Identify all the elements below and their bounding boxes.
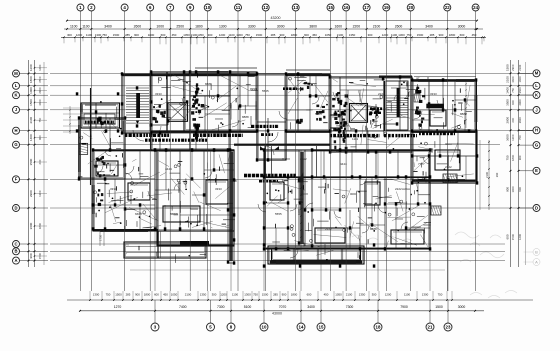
svg-text:1270: 1270	[114, 305, 122, 309]
svg-text:1800: 1800	[148, 33, 155, 37]
svg-text:1800: 1800	[449, 33, 456, 37]
svg-text:3500: 3500	[506, 99, 510, 106]
svg-text:1000: 1000	[156, 25, 164, 29]
svg-text:1100: 1100	[404, 292, 411, 296]
svg-text:1100: 1100	[232, 292, 239, 296]
svg-text:3333: 3333	[215, 187, 222, 191]
svg-text:8888: 8888	[230, 179, 237, 183]
svg-text:600: 600	[38, 159, 42, 164]
svg-text:1200: 1200	[38, 190, 42, 197]
svg-text:8888: 8888	[205, 82, 212, 86]
svg-text:11: 11	[236, 5, 241, 10]
svg-text:1350: 1350	[349, 33, 356, 37]
svg-text:600: 600	[511, 117, 515, 122]
svg-text:2222: 2222	[395, 187, 402, 191]
svg-text:1500: 1500	[417, 33, 424, 37]
svg-text:750: 750	[253, 292, 258, 296]
svg-text:750: 750	[106, 292, 111, 296]
svg-text:285: 285	[271, 33, 276, 37]
svg-text:R: R	[427, 76, 429, 80]
svg-text:3000: 3000	[277, 25, 285, 29]
svg-text:2900: 2900	[38, 87, 42, 94]
svg-text:390: 390	[495, 172, 499, 177]
svg-text:3333: 3333	[110, 187, 117, 191]
svg-text:600: 600	[518, 187, 522, 192]
svg-text:BT: BT	[416, 77, 420, 81]
svg-text:1400: 1400	[518, 76, 522, 82]
svg-text:1500: 1500	[506, 64, 510, 71]
svg-text:2900: 2900	[518, 99, 522, 105]
svg-text:12: 12	[263, 5, 268, 10]
svg-text:H: H	[535, 128, 538, 133]
svg-text:1500: 1500	[38, 252, 42, 259]
svg-text:1350: 1350	[197, 33, 204, 37]
svg-text:2100: 2100	[29, 117, 33, 124]
svg-text:B: B	[14, 249, 17, 254]
svg-text:3333: 3333	[430, 92, 437, 96]
svg-text:285: 285	[430, 33, 435, 37]
svg-text:1730: 1730	[99, 235, 103, 241]
svg-text:2900: 2900	[506, 117, 510, 124]
svg-text:2100: 2100	[185, 292, 192, 296]
svg-text:2500: 2500	[176, 25, 184, 29]
svg-text:1000: 1000	[29, 87, 33, 94]
svg-text:15: 15	[328, 5, 333, 10]
svg-text:3400: 3400	[307, 305, 315, 309]
svg-text:900: 900	[511, 100, 515, 105]
svg-text:600: 600	[307, 292, 312, 296]
svg-text:1200: 1200	[385, 292, 392, 296]
svg-text:900: 900	[506, 187, 510, 192]
svg-text:23: 23	[446, 325, 451, 330]
svg-text:2600: 2600	[134, 25, 142, 29]
svg-text:1500: 1500	[511, 233, 515, 240]
svg-text:2222: 2222	[445, 165, 452, 169]
svg-text:3500: 3500	[29, 158, 33, 165]
svg-text:B: B	[535, 249, 538, 254]
svg-text:AAAA: AAAA	[318, 185, 326, 189]
svg-text:AAAA: AAAA	[402, 187, 410, 191]
svg-text:1100: 1100	[82, 25, 89, 29]
svg-text:1300: 1300	[422, 292, 429, 296]
svg-text:300: 300	[67, 33, 72, 37]
svg-text:300: 300	[208, 33, 213, 37]
svg-text:1500: 1500	[297, 209, 301, 215]
svg-text:450: 450	[472, 33, 477, 37]
svg-text:5555: 5555	[275, 212, 282, 216]
svg-text:XXXX: XXXX	[395, 217, 403, 221]
svg-text:900: 900	[282, 292, 287, 296]
svg-text:1300: 1300	[244, 292, 251, 296]
svg-text:285: 285	[126, 292, 131, 296]
svg-text:2100: 2100	[518, 64, 522, 70]
svg-text:1300: 1300	[236, 33, 243, 37]
svg-text:3600: 3600	[518, 117, 522, 123]
svg-text:1500: 1500	[115, 292, 122, 296]
svg-text:750: 750	[518, 135, 522, 140]
svg-text:1800: 1800	[195, 25, 203, 29]
svg-text:9999: 9999	[250, 87, 257, 91]
svg-text:XXXX: XXXX	[215, 117, 223, 121]
svg-text:1200: 1200	[511, 134, 515, 141]
svg-text:1800: 1800	[29, 76, 33, 83]
svg-text:1200: 1200	[518, 234, 522, 240]
svg-text:600: 600	[154, 292, 159, 296]
svg-text:2100: 2100	[373, 25, 381, 29]
svg-text:A: A	[535, 259, 538, 264]
svg-text:4444: 4444	[165, 167, 172, 171]
svg-text:3333: 3333	[155, 92, 162, 96]
svg-text:7300: 7300	[346, 305, 354, 309]
svg-text:5555: 5555	[315, 112, 322, 116]
svg-text:1200: 1200	[382, 33, 389, 37]
svg-text:BBBB: BBBB	[170, 212, 178, 216]
svg-text:3600: 3600	[506, 134, 510, 141]
svg-text:3600: 3600	[511, 76, 515, 83]
svg-text:1050: 1050	[335, 292, 342, 296]
svg-text:1200: 1200	[220, 292, 227, 296]
svg-text:600: 600	[161, 33, 166, 37]
svg-text:0000: 0000	[350, 192, 357, 196]
svg-text:21: 21	[428, 325, 433, 330]
svg-text:18: 18	[376, 325, 381, 330]
svg-text:19: 19	[384, 5, 389, 10]
svg-text:1400: 1400	[506, 87, 510, 94]
svg-text:750: 750	[38, 117, 42, 122]
svg-text:3300: 3300	[248, 25, 256, 29]
svg-text:900: 900	[518, 155, 522, 160]
svg-text:3600: 3600	[38, 99, 42, 106]
svg-text:16: 16	[344, 5, 349, 10]
svg-text:2600: 2600	[395, 25, 403, 29]
svg-text:8888: 8888	[295, 87, 302, 91]
svg-text:1100: 1100	[391, 33, 398, 37]
svg-text:14: 14	[299, 325, 304, 330]
svg-text:900: 900	[29, 253, 33, 258]
svg-text:750: 750	[245, 33, 250, 37]
svg-text:750: 750	[407, 33, 412, 37]
svg-text:2100: 2100	[346, 292, 353, 296]
svg-text:XXXX: XXXX	[108, 122, 116, 126]
svg-text:7777: 7777	[418, 162, 425, 166]
svg-text:A: A	[14, 258, 17, 263]
svg-text:H: H	[14, 128, 17, 133]
svg-text:1800: 1800	[38, 222, 42, 229]
svg-text:2900: 2900	[511, 64, 515, 71]
svg-text:1100: 1100	[70, 25, 77, 29]
svg-text:285: 285	[273, 292, 278, 296]
svg-text:K: K	[535, 92, 538, 97]
svg-text:7300: 7300	[217, 305, 225, 309]
svg-text:1200: 1200	[29, 64, 33, 71]
svg-text:2100: 2100	[337, 33, 344, 37]
svg-text:1500: 1500	[29, 99, 33, 106]
svg-text:1300: 1300	[398, 33, 405, 37]
svg-text:G: G	[14, 142, 17, 147]
svg-text:3600: 3600	[29, 222, 33, 229]
svg-text:1500: 1500	[113, 33, 120, 37]
svg-text:300: 300	[372, 292, 377, 296]
svg-text:1050: 1050	[183, 33, 190, 37]
svg-text:750: 750	[102, 33, 107, 37]
svg-text:0000: 0000	[445, 142, 452, 146]
svg-text:6666: 6666	[135, 212, 142, 216]
svg-text:1000: 1000	[511, 186, 515, 193]
svg-text:900: 900	[135, 292, 140, 296]
svg-text:1800: 1800	[291, 292, 298, 296]
svg-text:1200: 1200	[219, 33, 226, 37]
svg-text:1300: 1300	[95, 33, 102, 37]
svg-text:1050: 1050	[171, 292, 178, 296]
svg-text:F: F	[15, 177, 18, 182]
svg-text:7070: 7070	[279, 305, 287, 309]
svg-text:20: 20	[408, 5, 413, 10]
svg-text:900: 900	[38, 135, 42, 140]
svg-text:1400: 1400	[29, 134, 33, 141]
svg-text:1100: 1100	[228, 33, 235, 37]
svg-text:1111: 1111	[352, 137, 358, 141]
svg-text:1200: 1200	[76, 33, 83, 37]
svg-text:43000: 43000	[272, 312, 282, 316]
svg-text:13: 13	[293, 5, 298, 10]
svg-text:1300: 1300	[93, 292, 100, 296]
svg-text:5100: 5100	[244, 305, 252, 309]
svg-text:600: 600	[304, 33, 309, 37]
svg-text:M: M	[14, 71, 18, 76]
svg-text:1300: 1300	[219, 25, 227, 29]
svg-text:43200: 43200	[271, 16, 281, 20]
svg-text:E: E	[535, 168, 538, 173]
svg-text:K: K	[14, 93, 17, 98]
svg-text:AAAA: AAAA	[190, 207, 198, 211]
svg-text:1400: 1400	[38, 64, 42, 71]
svg-text:750: 750	[506, 155, 510, 160]
svg-text:1350: 1350	[359, 292, 366, 296]
svg-text:900: 900	[134, 33, 139, 37]
svg-text:10: 10	[205, 5, 210, 10]
svg-text:3000: 3000	[458, 25, 466, 29]
svg-text:D: D	[14, 205, 17, 210]
svg-text:3400: 3400	[425, 25, 433, 29]
svg-text:300: 300	[212, 292, 217, 296]
svg-text:450: 450	[163, 292, 168, 296]
svg-text:7400: 7400	[179, 305, 187, 309]
svg-text:7900: 7900	[400, 305, 408, 309]
svg-text:2900: 2900	[29, 190, 33, 197]
svg-text:L: L	[535, 83, 538, 88]
svg-text:22: 22	[445, 5, 450, 10]
svg-text:600: 600	[460, 33, 465, 37]
svg-text:1500: 1500	[435, 305, 443, 309]
svg-text:C: C	[14, 241, 17, 246]
svg-text:2100: 2100	[506, 76, 510, 83]
svg-text:M: M	[535, 71, 539, 76]
svg-text:450: 450	[172, 33, 177, 37]
svg-text:600: 600	[506, 234, 510, 239]
svg-text:2200: 2200	[353, 25, 361, 29]
svg-text:750: 750	[438, 292, 443, 296]
svg-text:1500: 1500	[262, 292, 269, 296]
svg-text:3500: 3500	[38, 76, 42, 83]
svg-text:450: 450	[324, 292, 329, 296]
svg-text:10: 10	[262, 325, 267, 330]
svg-text:1800: 1800	[511, 154, 515, 161]
svg-text:XXXX: XXXX	[282, 157, 290, 161]
svg-text:D: D	[535, 205, 538, 210]
svg-text:1600: 1600	[335, 25, 343, 29]
svg-text:900: 900	[280, 33, 285, 37]
svg-text:900: 900	[439, 33, 444, 37]
svg-text:750: 750	[511, 88, 515, 93]
svg-text:450: 450	[312, 33, 317, 37]
svg-text:3400: 3400	[104, 25, 112, 29]
svg-text:L: L	[15, 83, 18, 88]
svg-text:2222: 2222	[378, 92, 385, 96]
svg-text:8888: 8888	[370, 227, 377, 231]
svg-text:2222: 2222	[300, 157, 307, 161]
svg-text:3000: 3000	[458, 305, 466, 309]
svg-text:2100: 2100	[485, 172, 489, 178]
svg-text:1800: 1800	[144, 292, 151, 296]
svg-text:2222: 2222	[325, 227, 332, 231]
svg-text:3800: 3800	[309, 25, 317, 29]
svg-text:1350: 1350	[200, 292, 207, 296]
svg-text:3500: 3500	[518, 87, 522, 93]
svg-text:24: 24	[473, 5, 478, 10]
svg-text:15: 15	[319, 325, 324, 330]
svg-text:G: G	[535, 143, 538, 148]
svg-text:1500: 1500	[256, 33, 263, 37]
svg-text:1800: 1800	[291, 33, 298, 37]
svg-text:8888: 8888	[242, 115, 249, 119]
svg-text:285: 285	[125, 33, 130, 37]
svg-text:17: 17	[364, 5, 369, 10]
svg-text:300: 300	[368, 33, 373, 37]
